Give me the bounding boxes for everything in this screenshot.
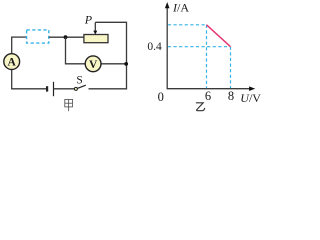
svg-text:S: S (76, 74, 82, 86)
label 甲 (drawn) (65, 99, 73, 111)
wire dashed box to rheostat (49, 36, 84, 38)
y-axis I/A (166, 5, 168, 90)
rheostat P body (84, 35, 108, 43)
label 乙 (drawn) (196, 103, 205, 111)
dashed guide vertical at 6 (206, 25, 208, 88)
svg-text:A: A (8, 57, 17, 69)
wire left vertical (11, 37, 13, 89)
svg-text:0.4: 0.4 (147, 41, 162, 53)
rheostat slider arrow (94, 22, 96, 31)
battery long plate (53, 82, 55, 96)
wire bottom left (11, 88, 46, 90)
svg-text:V: V (89, 59, 98, 71)
wire voltmeter branch right (101, 63, 126, 65)
node junction right (124, 62, 128, 66)
svg-text:8: 8 (228, 89, 234, 103)
wire top right horizontal (95, 21, 126, 23)
svg-text:0: 0 (158, 90, 164, 104)
wire top-left horizontal (11, 36, 26, 38)
switch S pivot (74, 87, 77, 90)
x-axis U/V (167, 88, 252, 90)
dashed guide upper horizontal (168, 24, 207, 26)
svg-text:I/A: I/A (172, 1, 189, 15)
wire voltmeter branch down (65, 37, 67, 64)
node junction top (64, 35, 68, 39)
wire switch to right (89, 88, 128, 90)
wire right vertical (126, 22, 128, 89)
switch S lever (77, 85, 86, 88)
svg-text:U/V: U/V (240, 91, 261, 105)
battery short plate (46, 86, 48, 91)
ammeter A (4, 54, 20, 70)
wire voltmeter branch left (65, 63, 85, 65)
wire battery to switch (54, 88, 75, 90)
dashed guide vertical at 8 (230, 47, 232, 88)
unknown component dashed box (27, 30, 49, 43)
svg-text:6: 6 (205, 89, 211, 103)
svg-text:P: P (84, 13, 93, 27)
dashed guide lower horizontal (168, 46, 231, 48)
I-U curve red segment (207, 25, 231, 47)
voltmeter V (85, 56, 101, 72)
